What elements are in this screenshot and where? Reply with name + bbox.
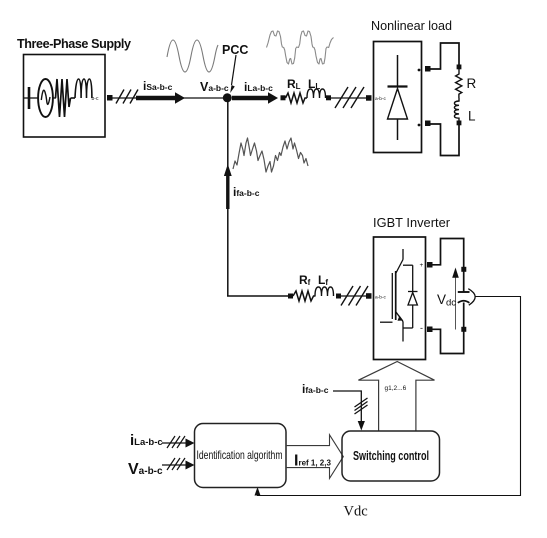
inductor Lf [315,287,334,296]
svg-text:Va-b-c: Va-b-c [200,80,229,94]
current arrow iL [232,92,278,104]
slash marks (ifa) [355,398,368,414]
identification algorithm box [195,424,287,488]
terminal nubs on load loop [457,65,462,70]
svg-text:g1,2...6: g1,2...6 [385,385,407,392]
svg-text:Switching control: Switching control [353,448,429,463]
wire (Lf to inverter) [341,295,366,297]
slash marks (3-phase, supply) [116,90,138,104]
capacitor curve mark [468,289,475,306]
svg-text:R: R [467,76,477,91]
inductor LL [307,89,326,98]
diode D2 (freewheeling) [403,265,418,328]
PCC pointer arrow [232,55,237,85]
resistor Rs (tall zigzag in supply) [56,79,71,117]
RL load loop wiring (bottom) [430,124,459,156]
wire (supply to PCC) [112,97,227,99]
terminal square (inverter input) [366,293,372,299]
terminal square (after Lf) [336,294,341,299]
svg-text:a-b-c: a-b-c [375,295,387,301]
RL load loop wiring (top) [430,43,459,69]
resistor Rf [293,291,316,301]
wire V input [162,464,186,466]
inductor Ls (tall coil in supply) [71,79,92,98]
wire (filter branch horizontal) [227,295,289,297]
Iref block arrow [286,435,343,479]
svg-text:-: - [420,323,423,333]
distorted load-current waveform (top right) [267,31,334,64]
DC link loop wiring (top) [432,238,464,292]
slash marks (iL input) [167,436,185,448]
wire (LL to load) [331,97,366,99]
terminal squares (inverter outputs) [427,262,433,268]
IGBT inverter box [374,237,426,360]
AC source V1 [24,79,56,117]
wire (PCC down to filter) [227,98,229,296]
svg-text:Nonlinear load: Nonlinear load [371,19,452,33]
capacitor C1 plates [458,291,470,293]
terminal square (before Rf) [288,294,293,299]
svg-text:+: + [420,262,424,269]
Vdc arrow (up) [455,277,457,330]
inductor L (load) [454,98,459,121]
supply box [24,55,106,138]
current arrow iS [136,92,185,104]
svg-text:a-b-c: a-b-c [375,96,387,102]
svg-text:b-c: b-c [92,96,99,102]
slash marks (V input) [167,458,185,470]
resistor R (load) [456,67,462,98]
nonlinear load box [374,42,422,153]
svg-text:ifa-b-c: ifa-b-c [302,382,329,396]
svg-text:IGBT Inverter: IGBT Inverter [373,215,451,230]
feedback wire (Vdc sense) [258,297,521,496]
resistor RL [286,93,308,103]
switching control box [342,431,440,481]
node PCC [223,93,232,102]
sine waveform (source voltage) [167,40,218,72]
IGBT Q1 symbol [380,249,403,342]
terminal square (before RL) [281,95,286,100]
svg-text:PCC: PCC [222,43,248,57]
slash marks (3-phase, load input) [335,87,364,108]
DC link loop wiring (bottom) [432,303,464,354]
slash marks (3-phase, filter) [341,286,368,306]
distorted filter-current waveform [233,138,308,172]
terminal squares (load outputs) [425,66,431,72]
terminal square (after LL) [326,95,331,100]
svg-text:ifa-b-c: ifa-b-c [233,185,260,199]
gate drive block arrow (up) [358,362,434,432]
terminal nubs on DC loop [461,267,466,272]
svg-text:iSa-b-c: iSa-b-c [143,79,173,93]
svg-text:Identification algorithm: Identification algorithm [197,448,283,462]
svg-text:Three-Phase Supply: Three-Phase Supply [17,37,131,51]
wire iL input [162,442,186,444]
wire ifa to switching control [333,391,361,422]
svg-text:Vdc: Vdc [344,504,368,520]
svg-text:iLa-b-c: iLa-b-c [244,80,273,94]
terminal square (load input) [366,95,372,101]
current arrow if (up) [224,164,232,209]
terminal square (supply output) [107,95,113,101]
svg-text:L: L [468,109,476,124]
load output dots [418,69,421,72]
thyristor D1 (load box) [388,55,408,140]
